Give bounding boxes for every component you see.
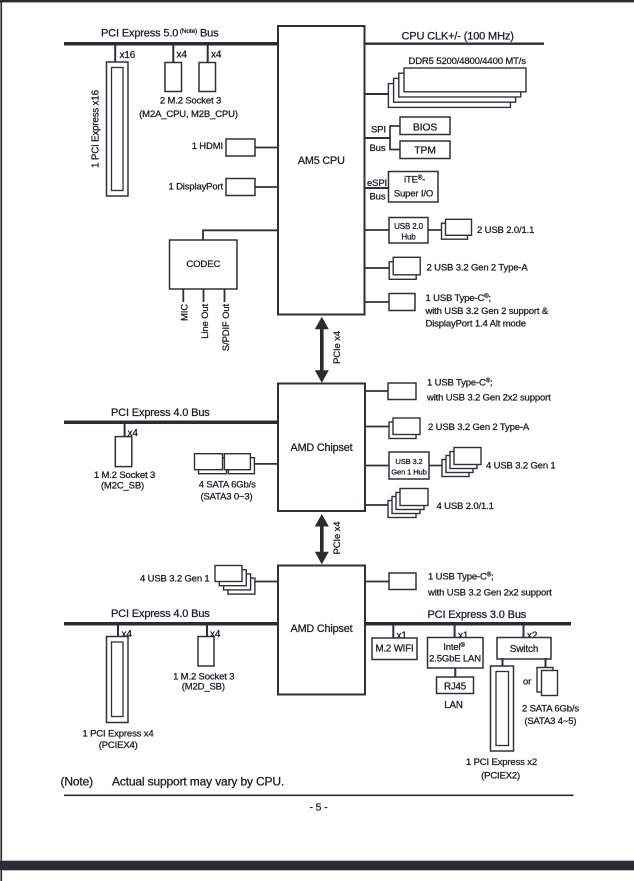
wire CPU to USB 3.2 Gen 2 ports bbox=[365, 267, 390, 269]
bus PCI Express 3.0 line bbox=[365, 622, 571, 626]
svg-text:2 USB 3.2 Gen 2 Type-A: 2 USB 3.2 Gen 2 Type-A bbox=[428, 422, 530, 433]
slot PCIEX4 outer bbox=[107, 637, 129, 723]
svg-text:iTE®-: iTE®- bbox=[404, 175, 425, 186]
svg-text:2 USB 2.0/1.1: 2 USB 2.0/1.1 bbox=[477, 225, 534, 236]
arrow PCIe x4 chipset1-chipset2 bbox=[320, 525, 324, 553]
port stack 4 USB 3.2 Gen 1 (chipset2) bbox=[228, 578, 255, 594]
svg-text:4 USB 3.2 Gen 1: 4 USB 3.2 Gen 1 bbox=[486, 461, 556, 472]
svg-text:DDR5 5200/4800/4400 MT/s: DDR5 5200/4800/4400 MT/s bbox=[409, 56, 527, 67]
socket M2A_CPU bbox=[165, 63, 182, 92]
wire x4 drop to PCIEX4 bbox=[117, 625, 119, 637]
wire x4 drop to M2A bbox=[172, 46, 174, 63]
page bottom dark band bbox=[0, 861, 634, 871]
svg-text:AMD Chipset: AMD Chipset bbox=[291, 442, 353, 454]
slot PCIEX16 inner bbox=[112, 68, 124, 191]
svg-text:1 PCI Express x2: 1 PCI Express x2 bbox=[466, 757, 537, 768]
connector HDMI box bbox=[226, 139, 255, 156]
svg-text:1 PCI Express x16: 1 PCI Express x16 bbox=[90, 90, 101, 168]
svg-text:PCI Express 4.0 Bus: PCI Express 4.0 Bus bbox=[111, 608, 210, 620]
wire CPU to USB Type-C bbox=[365, 301, 390, 303]
svg-text:USB 2.0: USB 2.0 bbox=[394, 222, 423, 231]
svg-text:(PCIEX2): (PCIEX2) bbox=[481, 771, 520, 782]
svg-text:1 USB Type-C®;: 1 USB Type-C®; bbox=[426, 293, 492, 304]
chip iTE Super I/O box bbox=[389, 172, 439, 203]
arrow PCIe x4 CPU-chipset1 bbox=[320, 328, 324, 372]
svg-text:(M2C_SB): (M2C_SB) bbox=[101, 481, 144, 492]
footer rule bbox=[64, 794, 574, 796]
port stack 4 USB 3.2 Gen 1 (chipset1) bbox=[442, 460, 469, 477]
connector DisplayPort box bbox=[226, 179, 255, 196]
wire x1 drop to M.2 WIFI bbox=[392, 625, 394, 638]
wire x4 drop to M2D bbox=[206, 625, 208, 637]
svg-text:1 PCI Express x4: 1 PCI Express x4 bbox=[83, 729, 154, 740]
svg-text:Line Out: Line Out bbox=[200, 303, 211, 338]
wire stub to TPM bbox=[390, 149, 400, 151]
wire eSPI bus from CPU bbox=[365, 187, 389, 189]
port USB Type-C (chipset2) box bbox=[389, 573, 416, 590]
bus PCI Express 5.0 line bbox=[64, 42, 278, 46]
svg-text:x4: x4 bbox=[211, 50, 222, 61]
svg-text:PCIe x4: PCIe x4 bbox=[332, 331, 343, 364]
svg-text:PCI Express 4.0 Bus: PCI Express 4.0 Bus bbox=[111, 407, 210, 419]
svg-text:4 USB 2.0/1.1: 4 USB 2.0/1.1 bbox=[437, 501, 494, 512]
slot PCIEX2 outer bbox=[491, 666, 514, 751]
memory DDR5 stack bbox=[388, 84, 510, 108]
svg-text:Gen 1 Hub: Gen 1 Hub bbox=[391, 468, 426, 477]
hub USB 3.2 Gen 1 box bbox=[389, 452, 429, 479]
chipset AMD Chipset box (lower) bbox=[278, 566, 365, 695]
svg-text:- 5 -: - 5 - bbox=[310, 802, 329, 814]
wire hub to USB 3.2 Gen 1 ports bbox=[429, 465, 442, 467]
wire HDMI to CPU bbox=[255, 147, 278, 149]
svg-text:LAN: LAN bbox=[444, 700, 463, 711]
page left border bbox=[0, 0, 2, 861]
svg-text:4 SATA 6Gb/s: 4 SATA 6Gb/s bbox=[199, 480, 256, 491]
port stack 2 USB 3.2 Gen 2 Type-A (chipset1) bbox=[389, 422, 416, 439]
svg-text:USB 3.2: USB 3.2 bbox=[395, 457, 422, 466]
svg-text:2 USB 3.2 Gen 2 Type-A: 2 USB 3.2 Gen 2 Type-A bbox=[427, 263, 529, 274]
page top border bbox=[0, 0, 634, 2]
svg-text:Actual support may vary by CPU: Actual support may vary by CPU. bbox=[112, 775, 284, 789]
connector RJ45 box bbox=[437, 677, 474, 694]
svg-text:Bus: Bus bbox=[370, 192, 386, 203]
svg-text:or: or bbox=[523, 677, 531, 688]
wire MIC stub bbox=[182, 289, 184, 302]
svg-text:Hub: Hub bbox=[401, 233, 416, 242]
svg-text:Super I/O: Super I/O bbox=[394, 189, 433, 200]
chip Intel 2.5GbE LAN box bbox=[428, 638, 484, 669]
wire switch to SATA bbox=[545, 658, 547, 668]
wire Line Out stub bbox=[203, 289, 205, 302]
svg-text:(SATA3 0~3): (SATA3 0~3) bbox=[200, 492, 252, 503]
svg-text:AM5 CPU: AM5 CPU bbox=[298, 155, 345, 167]
wire SATA to chipset1 bbox=[254, 463, 278, 465]
wire x4 drop to M2B bbox=[207, 46, 209, 63]
svg-text:PCI Express 5.0 (Note) Bus: PCI Express 5.0 (Note) Bus bbox=[101, 28, 219, 40]
svg-text:4 USB 3.2 Gen 1: 4 USB 3.2 Gen 1 bbox=[140, 574, 210, 585]
wire switch to PCIEX2 bbox=[502, 658, 504, 667]
svg-text:DisplayPort 1.4 Alt mode: DisplayPort 1.4 Alt mode bbox=[426, 319, 526, 330]
svg-text:with USB 3.2 Gen 2x2 support: with USB 3.2 Gen 2x2 support bbox=[427, 588, 552, 599]
svg-text:with USB 3.2 Gen 2 support &: with USB 3.2 Gen 2 support & bbox=[425, 306, 549, 317]
port stack 2 USB 3.2 Gen 2 Type-A bbox=[389, 262, 416, 280]
wire DDR5 to CPU bbox=[365, 93, 389, 95]
svg-text:1 M.2 Socket 3: 1 M.2 Socket 3 bbox=[94, 470, 155, 481]
svg-text:Switch: Switch bbox=[510, 644, 539, 655]
socket M2C_SB bbox=[115, 437, 132, 467]
wire LAN chip to RJ45 bbox=[454, 668, 456, 677]
wire chipset2 to USB Type-C bbox=[365, 581, 389, 583]
chip BIOS box bbox=[400, 117, 450, 135]
socket M2B_CPU bbox=[199, 63, 216, 92]
svg-text:(PCIEX4): (PCIEX4) bbox=[99, 740, 138, 751]
slot PCIEX4 inner bbox=[112, 642, 124, 717]
svg-text:2 M.2 Socket 3: 2 M.2 Socket 3 bbox=[160, 95, 221, 106]
svg-text:CPU CLK+/- (100 MHz): CPU CLK+/- (100 MHz) bbox=[402, 31, 514, 43]
port USB Type-C box bbox=[389, 294, 415, 311]
wire chipset1 to USB Type-C 2x2 bbox=[365, 390, 388, 392]
wire SPI bracket vertical bbox=[389, 125, 391, 150]
svg-text:1 DisplayPort: 1 DisplayPort bbox=[168, 182, 223, 193]
wire USB 3.2 Gen 1 stack to chipset2 bbox=[255, 581, 278, 583]
wire x1 drop to LAN bbox=[454, 625, 456, 638]
svg-text:x16: x16 bbox=[120, 50, 136, 61]
svg-text:eSPI: eSPI bbox=[367, 178, 387, 189]
port stack 2 SATA 6Gb/s bbox=[537, 668, 553, 693]
bus CPU CLK line bbox=[365, 43, 545, 45]
svg-text:2 SATA 6Gb/s: 2 SATA 6Gb/s bbox=[522, 704, 579, 715]
svg-text:S/PDIF Out: S/PDIF Out bbox=[221, 304, 232, 352]
slot PCIEX2 inner bbox=[496, 672, 509, 746]
svg-text:2.5GbE LAN: 2.5GbE LAN bbox=[429, 654, 481, 665]
wire x4 drop to M2C bbox=[124, 424, 126, 437]
svg-text:x4: x4 bbox=[177, 50, 188, 61]
svg-text:1 HDMI: 1 HDMI bbox=[192, 141, 223, 152]
svg-text:AMD Chipset: AMD Chipset bbox=[291, 623, 353, 635]
wire x16 drop to PCIEX16 bbox=[114, 46, 116, 63]
wire SPI bus from CPU bbox=[365, 137, 391, 139]
wire chipset1 to USB 2.0 ports bbox=[365, 504, 388, 506]
wire chipset1 to USB 3.2 hub bbox=[365, 465, 389, 467]
wire DisplayPort to CPU bbox=[255, 186, 278, 188]
wire CPU to USB 2.0 hub bbox=[365, 229, 390, 231]
slot M.2 WIFI box bbox=[372, 638, 417, 660]
cpu AM5 CPU box bbox=[278, 26, 365, 315]
wire stub to BIOS bbox=[390, 125, 400, 127]
socket M2D_SB bbox=[198, 637, 214, 667]
port stack 2 USB 2.0/1.1 bbox=[442, 223, 468, 239]
svg-text:(Note): (Note) bbox=[61, 775, 94, 789]
chipset AMD Chipset box (upper) bbox=[278, 384, 365, 512]
svg-text:PCIe x4: PCIe x4 bbox=[332, 522, 343, 555]
codec box bbox=[170, 240, 238, 289]
bus PCI Express 4.0 line (upper) bbox=[64, 421, 278, 425]
svg-text:(SATA3 4~5): (SATA3 4~5) bbox=[524, 716, 576, 727]
svg-text:CODEC: CODEC bbox=[186, 259, 220, 270]
svg-text:1 USB Type-C®;: 1 USB Type-C®; bbox=[428, 572, 494, 583]
svg-text:Bus: Bus bbox=[370, 143, 386, 154]
wire S/PDIF Out stub bbox=[224, 289, 226, 302]
slot PCIEX16 outer bbox=[107, 62, 129, 196]
svg-text:TPM: TPM bbox=[414, 146, 435, 157]
bus PCI Express 4.0 line (lower) bbox=[64, 622, 278, 626]
page left border below band bbox=[0, 870, 2, 881]
svg-text:PCI Express 3.0 Bus: PCI Express 3.0 Bus bbox=[428, 609, 527, 621]
chip TPM box bbox=[400, 141, 450, 159]
wire hub to USB 2.0 ports bbox=[428, 229, 442, 231]
wire CODEC to CPU bbox=[203, 230, 278, 240]
svg-text:BIOS: BIOS bbox=[413, 123, 437, 134]
port USB Type-C (chipset1) box bbox=[388, 383, 416, 400]
svg-text:RJ45: RJ45 bbox=[444, 682, 466, 693]
svg-text:with USB 3.2 Gen 2x2 support: with USB 3.2 Gen 2x2 support bbox=[426, 393, 551, 404]
port stack 4 USB 2.0/1.1 bbox=[388, 501, 416, 518]
switch box bbox=[497, 638, 551, 660]
svg-text:SPI: SPI bbox=[371, 125, 386, 136]
hub USB 2.0 box bbox=[389, 218, 428, 244]
wire chipset1 to USB 3.2 Gen 2 ports bbox=[365, 426, 389, 428]
svg-text:1 USB Type-C®;: 1 USB Type-C®; bbox=[427, 378, 493, 389]
port stack 4 SATA 6Gb/s bbox=[199, 458, 227, 474]
svg-text:(M2A_CPU, M2B_CPU): (M2A_CPU, M2B_CPU) bbox=[139, 109, 238, 120]
svg-text:MIC: MIC bbox=[179, 304, 190, 321]
svg-text:(M2D_SB): (M2D_SB) bbox=[182, 682, 225, 693]
wire x2 drop to Switch bbox=[523, 625, 525, 638]
svg-text:M.2 WIFI: M.2 WIFI bbox=[375, 644, 413, 655]
